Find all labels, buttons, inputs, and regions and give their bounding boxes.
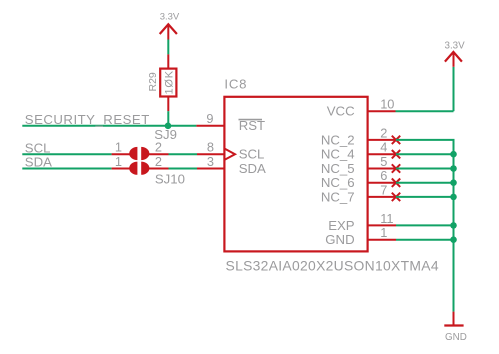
- svg-text:11: 11: [380, 211, 393, 226]
- svg-text:R29: R29: [147, 72, 159, 91]
- svg-text:SLS32AIA020X2USON10XTMA4: SLS32AIA020X2USON10XTMA4: [226, 257, 439, 273]
- svg-text:SCL: SCL: [25, 140, 51, 155]
- svg-text:1: 1: [380, 225, 387, 240]
- svg-text:1ØK: 1ØK: [164, 70, 176, 94]
- svg-text:2: 2: [155, 140, 162, 155]
- svg-text:1: 1: [115, 140, 122, 155]
- svg-text:GND: GND: [445, 332, 467, 343]
- svg-text:SJ10: SJ10: [155, 172, 185, 187]
- svg-text:SDA: SDA: [239, 161, 266, 176]
- svg-text:6: 6: [380, 168, 387, 183]
- svg-text:SECURITY_RESET: SECURITY_RESET: [25, 112, 150, 127]
- svg-text:VCC: VCC: [327, 104, 355, 119]
- svg-text:4: 4: [380, 140, 387, 155]
- svg-text:SDA: SDA: [25, 155, 52, 170]
- svg-text:NC_6: NC_6: [321, 175, 355, 190]
- svg-text:NC_5: NC_5: [321, 161, 355, 176]
- svg-text:7: 7: [380, 182, 387, 197]
- svg-text:NC_7: NC_7: [321, 189, 355, 204]
- svg-text:2: 2: [155, 154, 162, 169]
- svg-text:IC8: IC8: [224, 77, 247, 92]
- svg-text:3.3V: 3.3V: [160, 12, 180, 23]
- svg-text:2: 2: [380, 125, 387, 140]
- svg-text:NC_4: NC_4: [321, 147, 355, 162]
- svg-text:EXP: EXP: [328, 218, 355, 233]
- svg-text:3.3V: 3.3V: [445, 40, 466, 51]
- svg-text:10: 10: [380, 97, 394, 112]
- svg-text:9: 9: [206, 111, 213, 126]
- svg-text:RST: RST: [239, 118, 265, 133]
- svg-text:1: 1: [115, 154, 122, 169]
- svg-text:8: 8: [207, 140, 214, 155]
- svg-text:3: 3: [207, 154, 214, 169]
- svg-text:SCL: SCL: [239, 147, 265, 162]
- svg-text:NC_2: NC_2: [321, 132, 355, 147]
- svg-text:GND: GND: [325, 232, 354, 247]
- svg-text:5: 5: [380, 154, 387, 169]
